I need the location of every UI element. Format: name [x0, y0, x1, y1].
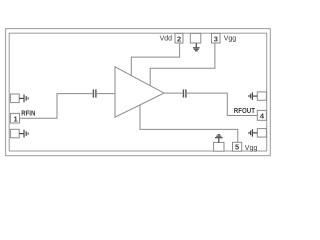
pin box ground pad top-right	[257, 92, 266, 100]
bottom middle ground pad	[214, 142, 224, 151]
pin 5 box	[233, 142, 242, 151]
pin box ground pad bottom-right	[257, 129, 266, 138]
pin 2 box	[175, 33, 183, 43]
pin 3 box	[212, 33, 221, 43]
svg-text:1: 1	[14, 114, 18, 123]
wire cap to RFOUT pin 4	[187, 93, 257, 115]
wire Vdd tap to pin 2	[131, 43, 179, 75]
wire amp bottom to pin 5 Vgg	[140, 105, 238, 143]
ground symbol (right-pointing) for bottom-left pad	[19, 130, 28, 138]
capacitor C2 (output DC block)	[183, 89, 186, 97]
pin box ground pad top-left	[10, 94, 19, 103]
wire Vgg tap to pin 3	[150, 43, 215, 86]
svg-text:3: 3	[214, 34, 218, 43]
svg-text:Vgg: Vgg	[245, 145, 258, 152]
svg-text:2: 2	[177, 34, 181, 43]
pin box ground pad bottom-left	[10, 129, 19, 138]
wire cap to amp input	[97, 93, 115, 95]
wire amp output	[164, 92, 182, 94]
ground symbol (up-pointing) above bottom middle pad	[215, 135, 223, 143]
pin 1 box RFIN	[10, 113, 19, 123]
pin 4 box	[257, 110, 266, 120]
inner border frame (package outline)	[9, 33, 267, 151]
ground symbol (right-pointing) for top-left pad	[19, 94, 28, 102]
svg-text:RFOUT: RFOUT	[234, 108, 256, 115]
wire RFIN input	[20, 94, 93, 119]
svg-text:5: 5	[235, 143, 239, 152]
svg-text:Vgg: Vgg	[224, 35, 237, 42]
svg-text:Vdd: Vdd	[160, 35, 173, 42]
top middle ground pad	[190, 33, 201, 43]
op-amp U1 (amplifier triangle)	[115, 67, 164, 117]
outer border frame	[6, 29, 271, 156]
svg-text:RFIN: RFIN	[21, 110, 35, 117]
ground symbol (left-pointing) for bottom-right pad	[249, 129, 257, 137]
ground symbol (down-pointing) under top middle pad	[193, 43, 200, 51]
capacitor C1 (input DC block)	[93, 89, 96, 97]
ground symbol (left-pointing) for top-right pad	[249, 92, 257, 100]
